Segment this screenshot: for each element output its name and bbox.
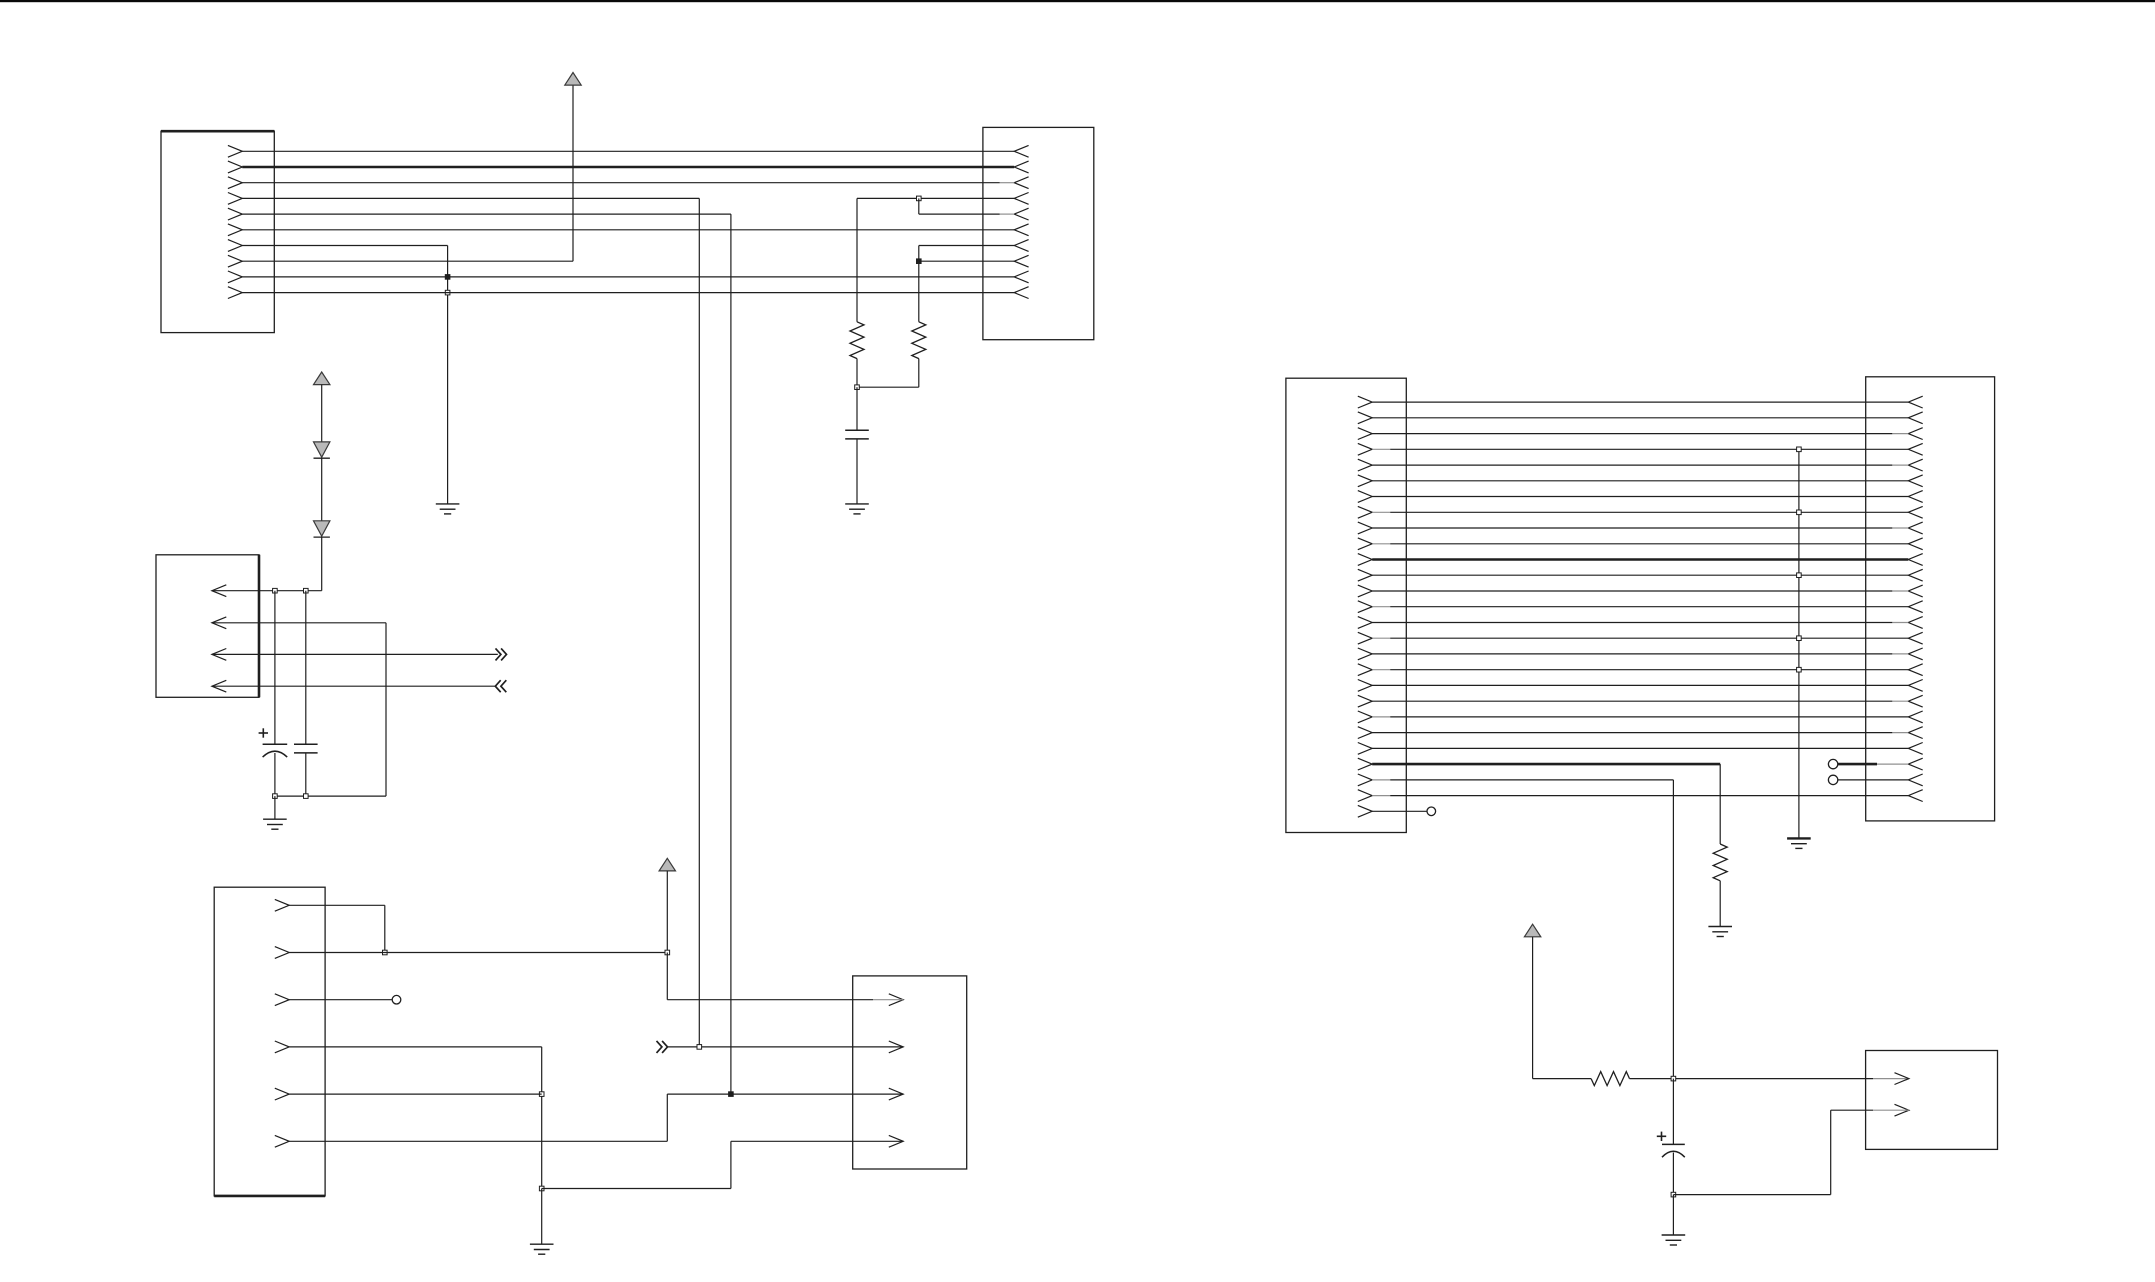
wire net16 vertical [666,953,668,1000]
capacitor C2 polarity + [259,732,268,734]
pin J6-1 [1358,396,1372,408]
wire bus row 20 [1372,700,1892,702]
junction node R1/R2/C1 [855,385,860,390]
wire net16 to J5-1 [667,999,873,1001]
pin stub J6-18 gray [1372,669,1390,671]
pin J6-2 [1358,412,1372,424]
pin J4-1 [275,899,289,911]
pin J2-8 [1014,255,1028,267]
wire net24 J6-25 [1390,779,1673,781]
pin J1-10 [228,287,242,299]
pin J1-3 [228,177,242,189]
wire bus row 10 [1390,543,1908,545]
wire net7 J1-7 horizontal [242,245,447,247]
pin J7-13 [1908,585,1922,597]
pin stub J6-25 gray [1372,779,1390,781]
no-connect circle J7-25 [1828,775,1837,784]
pin J7-19 [1908,680,1922,692]
wire ground stem C4 [1672,1195,1674,1235]
pin J6-6 [1358,475,1372,487]
pin J6-9 [1358,522,1372,534]
pin J4-6 [275,1135,289,1147]
wire ground stem [274,796,276,819]
junction C4 bottom [1671,1192,1676,1197]
pin J6-17 [1358,648,1372,660]
wire net12 J3-2 horizontal [212,622,386,624]
wire netA to J2-5 [919,213,1000,215]
pin J7-25 [1908,774,1922,786]
pin J6-26 [1358,790,1372,802]
junction net7/net9 [445,275,450,280]
pin J3-1 [212,585,226,597]
wire net19 J4-5 [289,1093,542,1095]
pin J7-2 [1908,412,1922,424]
wire mid vertical net [1798,449,1800,838]
wire ground stem J4 [541,1189,543,1245]
connector J8 (bottom right) [1866,1051,1998,1150]
pin J7-8 [1908,506,1922,518]
power VCC1 [565,73,581,86]
pin J7-26 [1908,790,1922,802]
pin J7-10 [1908,538,1922,550]
offpage connector in net22 [657,1041,662,1053]
wire net16 J4-2 [289,952,667,954]
wire bus row 17 [1372,653,1892,655]
pin stub J7-22 gray [1892,732,1908,734]
junction net11/C3 [304,588,309,593]
connector J1 (top left) [161,131,274,332]
pin stub J7-13 gray [1892,590,1908,592]
wire bus row 3 [1372,433,1892,435]
junction net18/net19 [539,1092,544,1097]
pin stub J6-10 gray [1372,543,1390,545]
pin stub J6-14 gray [1372,606,1390,608]
wire bus row 19 [1372,684,1908,686]
no-connect circle J6-27 [1427,807,1436,816]
wire net24 vertical [1672,780,1674,1079]
pin J1-4 [228,193,242,205]
wire net23 bold J6-24 [1372,763,1720,766]
connector J4 (bottom left) [214,887,325,1196]
wire bus row 26 [1390,795,1908,797]
pin stub J7-15 gray [1892,622,1908,624]
pin J6-13 [1358,585,1372,597]
ground GND3 [263,818,287,820]
wire net17 J4-3 [289,999,392,1001]
pin stub J5-1 gray [873,999,903,1001]
wire bus row 11 bold [1372,558,1908,561]
wire bus row 5 [1372,464,1892,466]
junction C2 bottom [273,794,278,799]
pin J7-24 [1908,758,1922,770]
wire net5 vertical drop [730,214,732,1094]
pin J6-19 [1358,680,1372,692]
wire R1 top lead [856,198,858,321]
no-connect circle J7-24 [1828,759,1837,768]
wire net15 J4-1 horizontal [289,904,385,906]
diode D2 [314,521,330,536]
pin J8-1 [1895,1073,1909,1085]
pin J6-5 [1358,459,1372,471]
wire bus row 14 [1390,606,1908,608]
pin stub J6-8 gray [1372,511,1390,513]
power VCC4 [1524,924,1540,937]
wire R4 to node [1630,1078,1874,1080]
wire bus row 16 [1390,637,1908,639]
capacitor C1 [845,429,869,431]
pin stub J7-9 gray [1892,527,1908,529]
stub J7-24 bold [1838,763,1877,766]
pin J6-4 [1358,443,1372,455]
pin J3-2 [212,617,226,629]
junction R4/C4 [1671,1076,1676,1081]
capacitor C2 bottom lead [274,753,276,796]
power VCC3 [659,858,675,871]
wire net23 vertical [1719,764,1721,844]
pin J6-15 [1358,617,1372,629]
junction mid vertical row 18 [1797,667,1802,672]
pin J2-3 [1014,177,1028,189]
wire netB vertical [918,246,920,322]
wire net8 vertical to VCC [572,85,574,261]
wire bus row 8 [1390,511,1908,513]
wire bus row 23 [1372,747,1908,749]
pin J3-4 [212,680,226,692]
wire net7 vertical to ground [447,246,449,504]
pin J1-8 [228,255,242,267]
pin J7-20 [1908,695,1922,707]
junction netB [917,259,922,264]
wire node to C1 [856,387,858,430]
capacitor C4 electrolytic [1662,1143,1685,1145]
wire bus row 15 [1372,622,1892,624]
wire bus row 4 [1390,448,1908,450]
stub J7-25 [1838,779,1908,781]
wire VCC2 to D1 [321,385,323,442]
junction mid vertical row 12 [1797,573,1802,578]
resistor R2 [912,322,926,359]
wire net12 bottom [275,795,386,797]
capacitor C4 top lead [1672,1079,1674,1145]
pin J7-22 [1908,727,1922,739]
capacitor C4 polarity + [1657,1135,1666,1137]
wire R3 to ground [1719,881,1721,927]
wire bus row 9 [1372,527,1892,529]
wire bus row 1 [1372,401,1908,403]
wire D2 to net11 [321,537,323,591]
wire net18 J4-4 horizontal [289,1046,542,1048]
wire bus row 12 [1372,574,1908,576]
pin stub J7-3 gray [1892,433,1908,435]
wire bus row 7 [1372,496,1908,498]
wire net15 vertical [384,905,386,952]
wire R2 to node [857,386,919,388]
capacitor C2 electrolytic [263,743,288,745]
pin J2-2 [1014,161,1028,173]
pin J7-16 [1908,632,1922,644]
pin J7-7 [1908,491,1922,503]
wire net26 vertical [1830,1110,1832,1194]
wire net9 J1-9 to J2-9 [242,276,1014,278]
junction net18 ground node [539,1186,544,1191]
pin J4-5 [275,1088,289,1100]
junction VCC3/net16 [665,950,670,955]
resistor R4 [1591,1072,1629,1086]
connector J7 (right group right) [1866,377,1995,821]
capacitor C4 bottom lead [1672,1153,1674,1195]
pin J7-18 [1908,664,1922,676]
pin J6-10 [1358,538,1372,550]
wire bus row 6 [1372,480,1908,482]
pin J2-1 [1014,145,1028,157]
pin J6-12 [1358,569,1372,581]
pin J2-7 [1014,240,1028,252]
pin J6-3 [1358,428,1372,440]
wire net4 J1-4 horizontal [242,197,699,199]
junction net7/net10 [445,290,450,295]
pin J2-9 [1014,271,1028,283]
pin J7-21 [1908,711,1922,723]
pin stub J7-20 gray [1892,700,1908,702]
connector J3 (middle left) [156,555,259,698]
power VCC2 [314,372,330,385]
wire bus row 18 [1390,669,1908,671]
wire bus row 2 [1372,417,1908,419]
pin stub J6-4 gray [1372,448,1390,450]
pin J4-2 [275,947,289,959]
wire R2 bottom lead [918,359,920,388]
offpage connector in net14 [495,680,500,692]
pin J6-21 [1358,711,1372,723]
ground GND4 [530,1243,554,1245]
wire R1 bottom lead [856,359,858,388]
pin J3-3 [212,649,226,661]
wire VCC3 stem [666,871,668,953]
ground GND5 [1787,837,1811,839]
wire net26 bottom [1673,1194,1830,1196]
wire net13 J3-3 [212,653,498,655]
stub J7-24 gray [1877,763,1908,765]
pin J7-9 [1908,522,1922,534]
wire VCC4 stem [1532,937,1534,1079]
pin J8-2 [1895,1104,1909,1116]
pin J7-15 [1908,617,1922,629]
pin J5-2 [889,1041,903,1053]
pin stub J8-2 gray [1873,1109,1909,1111]
wire net3 J1-3 to J2-3 [242,182,1000,184]
pin J6-18 [1358,664,1372,676]
pin J2-5 [1014,208,1028,220]
wire net21 vertical [730,1141,732,1188]
capacitor C3 bottom lead [305,753,307,796]
wire net21 to J5-4 [731,1140,903,1142]
pin J1-7 [228,240,242,252]
wire bus row 22 [1372,732,1892,734]
diode D1 [314,442,330,457]
pin stub J6-21 gray [1372,716,1390,718]
pin J7-23 [1908,743,1922,755]
ground GND2 [845,503,869,505]
pin J5-4 [889,1135,903,1147]
wire netB horizontal to J2-7 [919,245,1014,247]
pin stub J2-5 gray [1000,213,1014,215]
wire net11 J3-1 [212,590,322,592]
pin J7-6 [1908,475,1922,487]
pin J5-3 [889,1088,903,1100]
wire netA horizontal to J2-4 [857,197,1014,199]
wire netB to J2-8 [919,260,1014,262]
capacitor C3 [294,743,318,745]
pin J1-1 [228,145,242,157]
pin J1-2 [228,161,242,173]
pin J4-4 [275,1041,289,1053]
ground GND7 [1662,1234,1686,1236]
pin stub J7-17 gray [1892,653,1908,655]
pin J7-3 [1908,428,1922,440]
pin J2-6 [1014,224,1028,236]
pin J6-7 [1358,491,1372,503]
pin stub J8-1 gray [1873,1078,1909,1080]
wire D1 to D2 [321,458,323,521]
pin J6-22 [1358,727,1372,739]
pin stub J6-16 gray [1372,637,1390,639]
pin J6-23 [1358,743,1372,755]
wire C1 to ground [856,439,858,504]
resistor R3 [1713,844,1727,881]
wire net2 bold J1-2 to J2-2 [242,166,1014,169]
connector J2 (top right) [983,127,1094,339]
pin J4-3 [275,994,289,1006]
pin J7-17 [1908,648,1922,660]
wire net20 to J5-3 [667,1093,903,1095]
top border bar [0,0,2155,2]
wire net21 ground branch [542,1188,731,1190]
connector J5 (bottom right of group) [853,976,967,1169]
pin J1-5 [228,208,242,220]
pin J5-1 [889,994,903,1006]
wire net12 vertical [385,623,387,796]
junction mid vertical row 16 [1797,636,1802,641]
wire net6 J1-6 to J2-6 [242,229,1014,231]
junction net11/C2 [273,588,278,593]
pin J6-27 [1358,805,1372,817]
wire net20 J4-6 horizontal [289,1140,667,1142]
pin J2-10 [1014,287,1028,299]
wire VCC4 to R4 [1533,1078,1592,1080]
junction netA [917,196,922,201]
pin J6-16 [1358,632,1372,644]
wire net26 J8-2 horizontal [1831,1109,1873,1111]
pin J7-14 [1908,601,1922,613]
pin J6-14 [1358,601,1372,613]
junction mid vertical row 8 [1797,510,1802,515]
wire net8 J1-8 horizontal [242,260,573,262]
capacitor C3 top lead [305,591,307,745]
no-connect circle net17 [392,995,401,1004]
wire net10 J1-10 to J2-10 [242,292,1014,294]
pin J7-12 [1908,569,1922,581]
junction net22/net4 [697,1045,702,1050]
pin J7-1 [1908,396,1922,408]
pin stub J7-5 gray [1892,464,1908,466]
pin J2-4 [1014,193,1028,205]
pin J7-4 [1908,443,1922,455]
pin J7-5 [1908,459,1922,471]
offpage connector out net13 [496,648,501,660]
resistor R1 [850,322,864,359]
ground GND1 [436,503,460,505]
pin J6-20 [1358,695,1372,707]
wire bus row 13 [1372,590,1892,592]
wire net18 vertical [541,1047,543,1189]
pin J7-11 [1908,554,1922,566]
wire net20 vertical [666,1094,668,1141]
ground GND6 [1708,926,1732,928]
pin J6-25 [1358,774,1372,786]
pin J1-6 [228,224,242,236]
capacitor C2 top lead [274,591,276,745]
pin J6-8 [1358,506,1372,518]
junction net15/net16 [383,950,388,955]
junction net20/net5 [729,1092,734,1097]
pin J6-24 [1358,758,1372,770]
pin stub J2-3 gray [1000,182,1014,184]
wire net5 J1-5 horizontal [242,213,731,215]
connector J6 (right group left) [1286,378,1406,832]
wire net14 J3-4 [212,685,495,687]
junction mid vertical row 4 [1797,447,1802,452]
pin stub J6-26 gray [1372,795,1390,797]
wire net25 J6-27 [1372,810,1427,812]
pin J1-9 [228,271,242,283]
pin J6-11 [1358,554,1372,566]
wire net4 vertical drop [698,198,700,1047]
wire net22 to J5-2 [668,1046,904,1048]
wire bus row 21 [1390,716,1908,718]
wire netA jog down [918,198,920,214]
junction C3 bottom [304,794,309,799]
wire net1 J1-1 to J2-1 [242,150,1014,152]
